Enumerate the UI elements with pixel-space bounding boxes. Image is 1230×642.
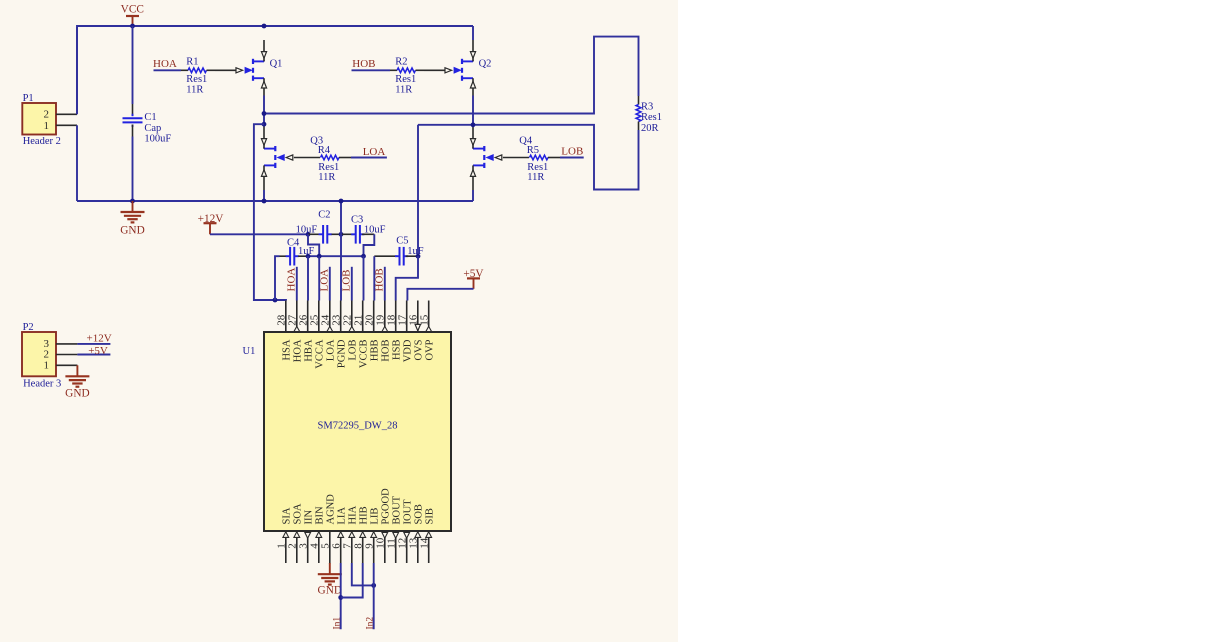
svg-text:HIB: HIB [359,506,370,524]
svg-text:100uF: 100uF [144,133,171,144]
pin Q1 source [261,78,266,95]
pin Q1 drain [261,40,266,61]
junction node B rail [471,122,476,127]
net label +12V wire [77,333,111,345]
pin P2.3 [56,343,77,345]
wire VCCA-VCCB bus [308,255,364,257]
svg-text:2: 2 [44,109,50,121]
svg-text:LOA: LOA [319,269,331,292]
svg-text:HOA: HOA [286,268,298,292]
pin U1.15 OVP [418,301,435,361]
svg-text:R1: R1 [186,57,198,68]
connector P1 [22,93,61,147]
wire Q4 source to GND rail [472,190,474,201]
power ground GND2 pin5 [318,563,342,597]
svg-text:Q2: Q2 [479,59,492,70]
wire HIB jog [341,563,363,598]
junction GND rail PGND [339,199,344,204]
junction node A rail [262,111,267,116]
svg-text:C1: C1 [144,112,156,123]
wire C5 left to HBB pin20 [373,256,375,300]
connector P2 [22,322,61,389]
svg-text:R5: R5 [527,145,539,156]
pin U1.26 HBA [297,301,314,362]
pin U1.18 HSB [385,301,402,360]
wire LIB In2 [373,563,375,629]
resistor R3 [636,96,662,134]
pin Q2 gate [424,67,462,74]
pin Q2 drain [470,40,475,61]
net label LOB stub [341,267,353,301]
wire LIA In1 [340,563,342,629]
svg-text:Header 3: Header 3 [23,378,61,389]
power ground GND3 [65,365,89,399]
wire phase B rail [418,125,639,190]
pin Q2 source [470,78,475,95]
svg-text:HIA: HIA [348,505,359,524]
wire VCC top rail [77,26,473,114]
pin U1.14 SIB [418,508,435,563]
junction C1 GND rail [130,199,135,204]
pin U1.10 PGOOD [375,488,392,563]
pin P2.1 [56,364,77,366]
svg-text:HBA: HBA [304,339,315,362]
wire Q2 source to node B [472,96,474,127]
svg-text:HOA: HOA [293,339,304,362]
net label HOB [352,58,391,70]
wire GND bottom rail [77,200,473,202]
svg-text:SM72295_DW_28: SM72295_DW_28 [318,421,398,432]
pin U1.5 AGND [320,494,337,563]
wire VCCB to pin21 [363,256,365,300]
svg-text:Res1: Res1 [318,162,339,173]
pin U1.22 LOB [342,301,359,361]
pin U1.3 IIN [297,510,314,563]
svg-text:Res1: Res1 [641,112,662,123]
transistor Q3 [264,136,323,168]
svg-text:+12V: +12V [87,333,112,345]
svg-text:In1: In1 [332,617,342,630]
pin U1.20 HBB [363,301,380,362]
svg-text:PGND: PGND [337,339,348,368]
pin U1.21 VCCB [352,301,369,369]
svg-text:C5: C5 [396,235,408,246]
power port +12V [198,213,225,234]
svg-text:OVS: OVS [414,339,425,360]
wire PGND vertical [340,201,342,301]
pin U1.1 SIA [276,507,293,563]
pin U1.2 SOA [287,503,304,563]
svg-text:In2: In2 [365,617,375,630]
svg-text:AGND: AGND [326,494,337,525]
svg-text:C3: C3 [351,214,363,225]
svg-text:SOA: SOA [293,503,304,524]
net label LOB [560,145,584,157]
svg-text:GND: GND [65,387,89,399]
junction Q1 drain rail [262,24,267,29]
pin Q3 drain [261,126,266,148]
svg-text:20R: 20R [641,123,659,134]
pin P2.2 [56,354,77,356]
svg-text:LOB: LOB [561,145,583,157]
svg-text:BOUT: BOUT [392,495,403,524]
svg-text:HOA: HOA [153,58,177,70]
svg-text:GND: GND [318,585,342,597]
junction VCC rail [130,24,135,29]
resistor R5 [527,145,560,183]
svg-text:SIA: SIA [282,507,293,524]
pin U1.11 BOUT [385,495,402,563]
pin P1.1 [56,124,77,126]
wire +12V bus [210,233,308,235]
svg-text:U1: U1 [243,346,256,357]
wire phase A rail [264,37,639,114]
svg-text:11R: 11R [527,172,544,183]
pin P1.2 [56,113,77,115]
pin Q3 gate [276,154,320,161]
svg-text:IIN: IIN [304,510,315,525]
svg-text:LIB: LIB [370,508,381,525]
junction Q3 source GND [262,199,267,204]
net label LOA [351,146,387,158]
wire VCCA jog [308,234,319,256]
pin Q3 source [261,165,266,190]
junction C4 left [273,298,278,303]
capacitor C1 [123,104,172,144]
junction C5 HSB [416,254,421,259]
wire Q1 source to node A [263,96,265,127]
svg-text:HOB: HOB [381,340,392,362]
wire HSA jog down [254,124,286,300]
svg-text:LOA: LOA [326,339,337,361]
pin U1.25 VCCA [309,301,326,369]
svg-text:GND: GND [120,224,144,236]
capacitor C3 [341,214,386,243]
power ground GND1 [120,201,144,236]
svg-text:15: 15 [418,314,430,326]
pin U1.19 HOB [375,301,392,362]
pin Q1 gate [215,67,253,74]
svg-text:VCCA: VCCA [315,339,326,369]
wire VCC to C1 [132,26,134,104]
svg-text:BIN: BIN [315,506,326,525]
svg-text:11R: 11R [318,172,335,183]
junction In2 [371,583,376,588]
wire P1.1 to GND rail [76,125,78,201]
svg-text:Q1: Q1 [270,59,283,70]
junction node A jog [262,122,267,127]
svg-text:PGOOD: PGOOD [381,488,392,525]
svg-text:11R: 11R [395,84,412,95]
pin Q4 gate [485,154,529,161]
junction In1 [338,595,343,600]
transistor Q4 [473,136,533,168]
svg-text:VDD: VDD [403,339,414,362]
pin U1.4 BIN [309,506,326,563]
svg-text:1uF: 1uF [407,246,424,257]
pin U1.27 HOA [287,301,304,363]
pin U1.16 OVS [408,301,425,361]
wire Q2 drain drop [472,26,474,40]
svg-text:HSA: HSA [282,339,293,360]
net label LOA stub [319,267,331,301]
svg-text:1: 1 [44,120,50,132]
junction VCCA [317,254,322,259]
transistor Q1 [253,59,282,81]
svg-text:HSB: HSB [392,340,403,360]
wire HIA jog [352,563,374,585]
svg-text:1: 1 [44,359,50,371]
pin U1.8 HIB [352,506,369,563]
svg-text:Res1: Res1 [527,162,548,173]
resistor R4 [318,145,351,183]
svg-text:LOB: LOB [341,270,353,292]
svg-text:LIA: LIA [337,507,348,525]
svg-text:+5V: +5V [88,345,108,357]
junction +12V C2 [306,232,311,237]
svg-text:HOB: HOB [374,268,386,291]
schematic sheet [0,0,678,642]
wire node B to C5 right [417,125,419,256]
net label HOA [153,58,181,70]
capacitor C4 [280,237,315,265]
junction VCCB [361,254,366,259]
pin U1.24 LOA [320,301,337,362]
svg-text:SOB: SOB [414,504,425,524]
junction C4 HBA [306,254,311,259]
transistor Q2 [462,59,491,81]
net label HOA stub [286,267,298,301]
wire P1.2 to VCC rail [76,27,78,114]
capacitor C2 [296,209,341,243]
pin U1.23 PGND [330,301,347,369]
power port +5V [463,268,484,289]
svg-text:OVP: OVP [425,339,436,360]
net label HOB stub [374,267,386,301]
wire HBA to pin26 [307,256,309,300]
capacitor C5 [374,235,424,265]
svg-text:C2: C2 [318,209,330,220]
svg-text:HBB: HBB [370,340,381,362]
svg-text:14: 14 [418,537,430,549]
pin U1.17 VDD [396,301,413,363]
wire Q3 source to GND rail [263,190,265,201]
pin U1.7 HIA [342,505,359,563]
pin U1.9 LIB [363,508,380,563]
power port VCC [121,3,144,26]
resistor R1 [181,57,215,96]
svg-text:R2: R2 [395,57,407,68]
pin U1.6 LIA [330,507,347,563]
svg-text:Header 2: Header 2 [23,136,61,147]
wire C3 to VCCB jog [364,234,375,256]
svg-text:11R: 11R [186,84,203,95]
svg-text:IOUT: IOUT [403,499,414,525]
net label +5V wire [77,345,110,357]
wire HSB jog to pin18 [396,256,418,300]
svg-text:SIB: SIB [425,508,436,524]
svg-text:HOB: HOB [352,58,375,70]
wire C4 left to HSA [275,256,280,300]
wire +5V to VDD pin17 [407,289,473,301]
resistor R2 [390,57,424,96]
pin Q4 source [470,165,475,190]
svg-text:LOB: LOB [348,340,359,361]
pin U1.28 HSA [276,301,293,361]
ic U1 body [243,332,452,531]
wire VCCA to pin25 [318,256,320,300]
pin U1.13 SOB [408,504,425,563]
pin Q4 drain [470,126,475,148]
svg-text:VCCB: VCCB [359,340,370,369]
svg-text:R4: R4 [318,145,331,156]
pin U1.12 IOUT [396,499,413,563]
wire C1 to GND rail [132,137,134,202]
junction GND C2 C3 [339,232,344,237]
svg-text:VCC: VCC [121,3,144,15]
svg-text:R3: R3 [641,101,653,112]
svg-text:LOA: LOA [363,146,386,158]
